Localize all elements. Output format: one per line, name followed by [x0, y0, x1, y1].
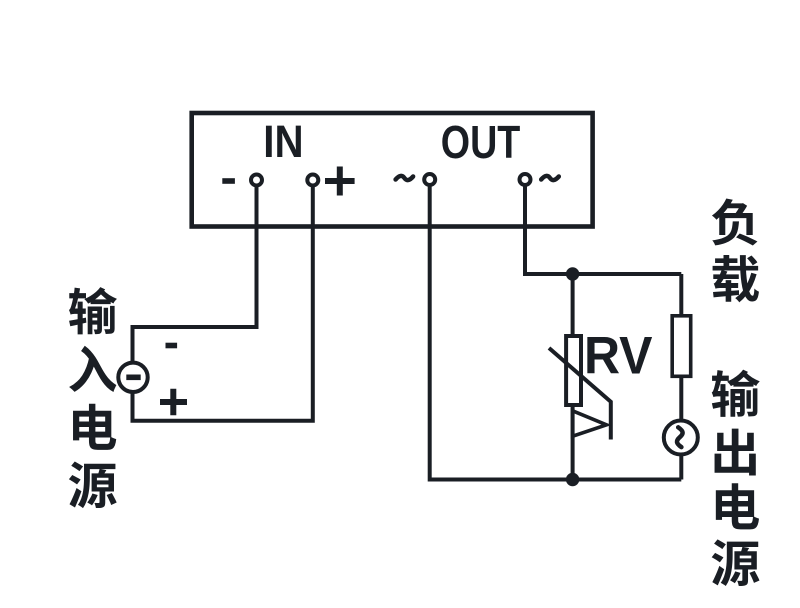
label 电 (input power, left column)	[73, 404, 116, 450]
input polarity minus label	[166, 343, 178, 349]
label 出 (load / output power, right column)	[715, 429, 756, 476]
varistor RV arrow triangle	[573, 411, 607, 436]
wire: load branch top segment	[679, 274, 683, 315]
wire: IN- terminal down, left, to source top	[133, 185, 257, 362]
minus label at IN- terminal	[222, 178, 235, 184]
input source minus sign	[126, 374, 140, 380]
wire: varistor branch vertical	[571, 274, 575, 480]
label 输 (input power, left column)	[69, 287, 117, 334]
wire: load branch bottom segment	[679, 377, 683, 480]
label 电 (load / output power, right column)	[716, 483, 759, 529]
label 负 (load / output power, right column)	[712, 199, 758, 246]
label 载 (load / output power, right column)	[713, 255, 759, 302]
wire: source bottom, right, up to IN+ terminal	[133, 185, 313, 421]
svg-text:RV: RV	[584, 327, 653, 386]
IN- terminal pin circle	[251, 175, 262, 186]
output source AC squiggle	[677, 427, 683, 447]
input polarity plus label	[160, 389, 187, 415]
label 入 (input power, left column)	[69, 346, 116, 392]
svg-text:IN: IN	[263, 116, 303, 167]
svg-text:OUT: OUT	[441, 116, 521, 168]
junction node bottom	[566, 473, 579, 486]
label 源 (input power, left column)	[69, 462, 117, 509]
plus label at IN+ terminal	[325, 167, 355, 196]
tilde label at OUT right terminal	[541, 176, 559, 180]
varistor RV body	[566, 336, 581, 405]
label 输 (load / output power, right column)	[712, 370, 760, 417]
wire: OUT right terminal down, top bus to load	[525, 185, 681, 274]
junction node top	[566, 267, 579, 280]
converter box	[192, 113, 593, 227]
IN+ terminal pin circle	[307, 175, 318, 186]
input source circle	[118, 363, 147, 392]
tilde label at OUT left terminal	[396, 176, 414, 180]
OUT right terminal pin circle	[520, 174, 531, 185]
output source circle	[664, 421, 698, 455]
label 源 (load / output power, right column)	[712, 539, 760, 586]
varistor RV diagonal with bend	[549, 348, 611, 440]
wire: OUT left terminal down, bottom bus to load	[430, 185, 682, 480]
load resistor body	[672, 316, 691, 377]
OUT left terminal pin circle	[424, 174, 435, 185]
